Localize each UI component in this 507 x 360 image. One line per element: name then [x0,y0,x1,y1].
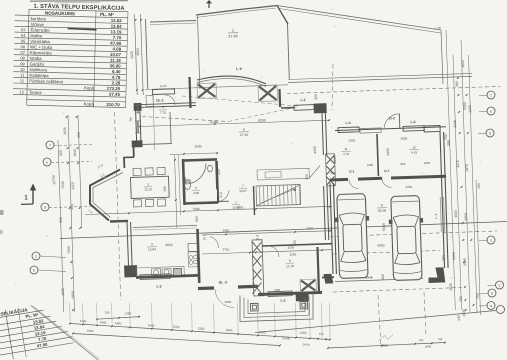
curved window band L-6 [197,76,266,84]
dim extension lines left of WC [175,155,177,228]
kitchen west wall [127,222,129,266]
grid bubbles right bottom [487,236,495,244]
kitchen stove and fridge at east wall [188,243,198,251]
terrace floor edge [145,85,288,90]
WC sink [208,165,213,172]
porch post 2 [300,301,308,309]
room 8 north wall with door D-2 [262,244,332,246]
WC door D-2 with swing [216,190,218,202]
bottom chain right (5000 750) [328,343,445,349]
stair flight with risers [256,185,301,207]
underlying sheet edge [31,306,98,360]
garage west wall foot [324,274,333,283]
dashed line below site line [330,231,497,237]
bottom chain row 1 (750 1250) [97,317,140,320]
south wall of bay to kitchen corner [110,220,128,223]
car 1 in garage [335,193,371,278]
room 8 south wall with window L-2 [258,292,322,294]
bottom chain row 2 (main) [70,324,275,337]
terrace inner edge [198,16,200,89]
bottom chain row 2 right part (1250 150) [275,336,330,339]
left jamb of window band [190,77,191,108]
living room label 5/47.90 and dim 8200 [139,120,330,126]
corridor wall at stairs [254,186,255,215]
bay window (Edamzale) walls L-1 [90,170,120,221]
grid bubble b left lower [30,266,38,274]
room explication table (1. STAVA TELPU EKSPLIKACIJA) [13,2,128,107]
terrace dimension lines left [135,14,138,95]
entrance porch steps [240,293,313,322]
kitchen counter with sink [136,266,184,276]
kitchen north boundary [133,225,197,227]
WC room walls (6) [183,159,185,205]
scan smudge top edge [30,0,128,2]
grid bubble d left [41,203,49,211]
window 1 in west wall [137,105,139,114]
section arrow 1 [32,189,34,204]
dashed line garage mid [333,251,440,255]
bottom chain row 3 (11400) [73,334,280,346]
west exterior wall upper [136,107,137,141]
paper edge artifacts left [0,210,4,215]
break mark [378,335,393,342]
kitchen south-west corner [125,266,137,277]
right jamb of window band [278,89,281,107]
long site line through plan [60,222,507,239]
garage north-east corner [424,126,440,133]
left vertical dimension line middle [68,115,75,312]
car 2 in garage [389,195,425,280]
grid bubbles right top [487,91,495,99]
wall stub east of room 8 [322,276,334,278]
grid dashed line upper [287,86,500,93]
dashed line garage south [333,288,462,293]
column K2 (terrace, hatched) [258,85,278,102]
north wall west segment [134,103,196,105]
vertical grid dashed line at garage axis [378,295,381,348]
hall dim line 2770 3250 [202,250,332,254]
entry door DL-1 with step [153,89,175,95]
garage interior north wall with doors D-1 and D-7 [330,178,348,182]
porch post 1 [251,303,259,311]
garage block north wall with windows L-4 and door D-3 [335,127,446,131]
garage east wall foot [429,268,445,283]
WC toilet [185,181,191,190]
vertical grid dashed line left [115,112,121,300]
west wall jog [133,147,135,157]
north-west corner block [134,103,141,110]
north wall east segment with window L-2 [281,107,294,109]
north-east corner block [314,104,326,113]
left vertical dimension line outer [58,140,64,312]
stair hall landing [257,168,309,180]
upper floor overhang outline above garage [277,6,441,31]
grid bubble f left [46,141,54,149]
kitchen east wall [198,229,200,283]
wall between rooms 10 and 11 [377,134,378,176]
door D-3 swing [384,114,400,129]
hall dim line 2050 [202,231,332,235]
east wall of living area [322,107,324,155]
right vertical dimension lines [446,30,455,310]
chimney flue block at stairs (hatched) [326,154,336,186]
hall interior dim line 7900 [85,206,332,214]
west wall corner block [132,141,142,147]
dimension 2500 above WC [170,153,218,155]
column K1 (terrace, hatched) [197,83,217,99]
extension ticks from plan to chains [69,303,72,322]
garage east wall [440,132,445,268]
garage west wall [330,183,333,274]
shower enclosure quarter circle [186,164,207,185]
long dimension line to bubble a [255,311,496,333]
left vertical dimension line inner [78,115,82,228]
hall south wall with entry DL-2 [198,286,214,290]
section mark top [208,1,210,8]
window L-3 in east wall [440,197,441,232]
room 8 east wall [318,247,320,293]
grid bubble e left [43,158,51,166]
terrace top edge inner line [196,8,276,18]
interior wall of room 4 [142,144,172,145]
dining table with chairs (Edamzale) [131,176,170,198]
kitchen south wall with window L-2 [136,275,198,277]
garage door opening Dv-5 [335,279,423,282]
grid bubble c left lower [32,252,40,260]
window 2 in west wall [137,121,139,133]
column at room 8 south-east (hatched) [300,279,316,292]
terrace outline (Terase) [146,19,148,89]
room 8 chimney wall (hatched) [252,240,264,296]
grid dashed line through north wall [142,117,228,122]
